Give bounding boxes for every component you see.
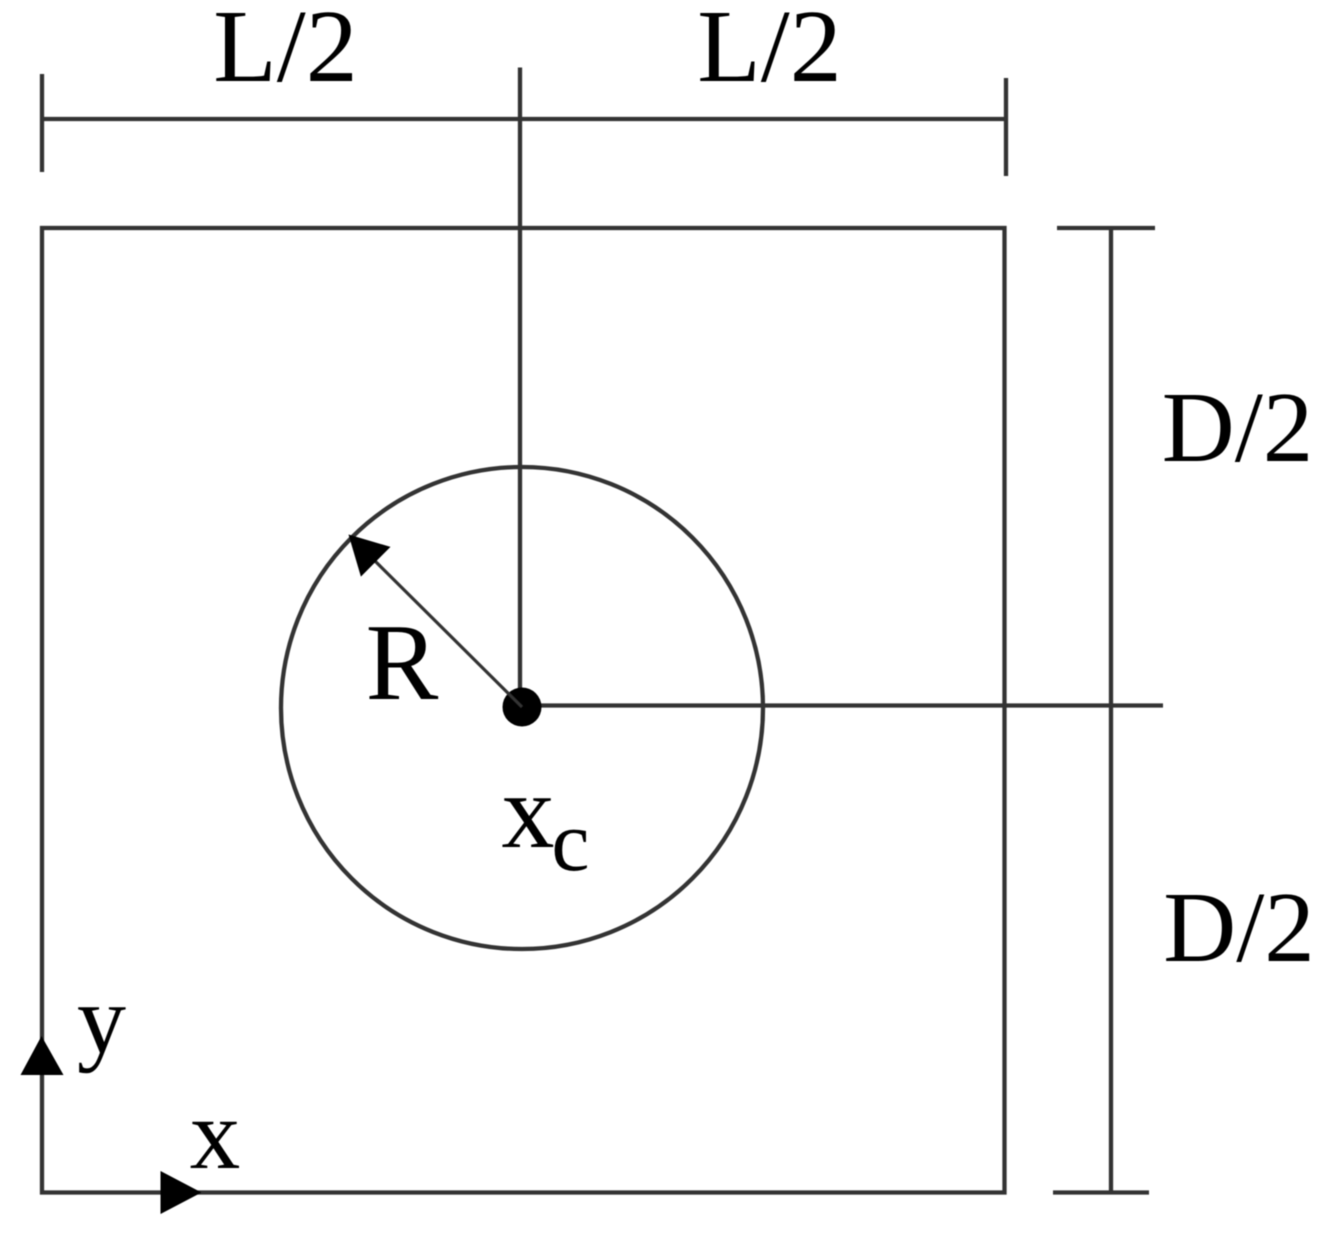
svg-text:x: x	[502, 753, 555, 870]
svg-text:R: R	[366, 602, 439, 723]
svg-text:L/2: L/2	[213, 0, 357, 104]
svg-text:D/2: D/2	[1163, 871, 1315, 983]
svg-text:x: x	[190, 1078, 241, 1190]
svg-text:D/2: D/2	[1162, 371, 1314, 483]
svg-text:L/2: L/2	[697, 0, 841, 104]
svg-text:y: y	[77, 966, 126, 1074]
svg-text:c: c	[551, 793, 589, 889]
